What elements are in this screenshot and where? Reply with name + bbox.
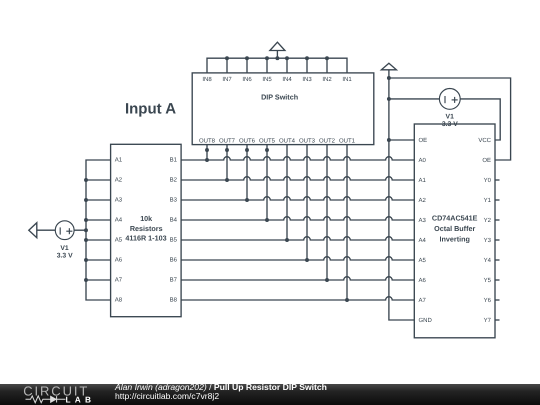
svg-text:IN2: IN2 — [322, 76, 332, 83]
svg-text:Inverting: Inverting — [440, 234, 470, 243]
wire: left supply bus joining A1..A8 — [86, 160, 111, 300]
svg-text:IN4: IN4 — [282, 76, 292, 83]
wire: B4 to A3 row at y=220 — [181, 217, 414, 220]
svg-text:B3: B3 — [170, 197, 178, 204]
svg-text:V1: V1 — [60, 245, 69, 252]
svg-text:A1: A1 — [419, 177, 427, 184]
svg-text:Resistors: Resistors — [130, 224, 163, 233]
svg-text:Y6: Y6 — [484, 297, 492, 304]
svg-text:B1: B1 — [170, 157, 178, 164]
wire: OUT1 down to row 8 — [345, 145, 349, 302]
junction dots on right bus — [387, 76, 391, 142]
CircuitLab logo — [20, 381, 120, 405]
wire: OUT2 down to row 7 — [325, 145, 329, 282]
svg-text:IN3: IN3 — [302, 76, 312, 83]
svg-text:OE: OE — [419, 137, 428, 144]
svg-text:A2: A2 — [115, 177, 123, 184]
wire: B3 to A2 row at y=200 — [181, 197, 414, 200]
svg-text:IN8: IN8 — [202, 76, 212, 83]
wire: OUT4 down to row 5 — [285, 145, 289, 242]
voltage source V1 3.3 V (left) — [37, 221, 86, 260]
svg-text:V1: V1 — [446, 114, 455, 121]
wire: B1 to A0 row at y=160 — [181, 157, 414, 160]
svg-text:OUT6: OUT6 — [239, 138, 256, 145]
svg-text:Y1: Y1 — [484, 197, 492, 204]
footer credit text — [115, 383, 327, 402]
svg-text:A3: A3 — [115, 197, 123, 204]
svg-text:IN5: IN5 — [262, 76, 272, 83]
svg-text:Octal Buffer: Octal Buffer — [434, 224, 475, 233]
wire: bus to OE (left pin) — [389, 139, 414, 141]
svg-text:4116R 1-103: 4116R 1-103 — [125, 234, 166, 243]
wire: OUT7 down to row 2 — [225, 145, 229, 182]
svg-text:A6: A6 — [419, 277, 427, 284]
resistor array U2 10k 4116R 1-103 box — [111, 144, 182, 316]
wire: 3.3V bus right (triangle stem down to GND corner) — [389, 70, 414, 320]
svg-text:Y3: Y3 — [484, 237, 492, 244]
svg-text:10k: 10k — [140, 214, 152, 223]
svg-text:B7: B7 — [170, 277, 178, 284]
svg-text:A0: A0 — [419, 157, 427, 164]
svg-text:A4: A4 — [115, 217, 123, 224]
svg-text:A5: A5 — [115, 237, 123, 244]
wire: IN bus above DIP switch — [207, 58, 347, 73]
svg-text:A4: A4 — [419, 237, 427, 244]
svg-text:B2: B2 — [170, 177, 178, 184]
svg-text:B4: B4 — [170, 217, 178, 224]
svg-text:OUT3: OUT3 — [299, 138, 316, 145]
wire: B7 to A6 row at y=280 — [181, 277, 414, 280]
voltage source V1 3.3 V (top right) — [389, 89, 460, 129]
op IC U1 CD74AC541E octal buffer box — [414, 124, 495, 338]
svg-text:A5: A5 — [419, 257, 427, 264]
wire: OUT5 down to row 4 — [265, 145, 269, 222]
svg-text:A1: A1 — [115, 157, 123, 164]
svg-text:CD74AC541E: CD74AC541E — [432, 214, 478, 223]
svg-text:B8: B8 — [170, 297, 178, 304]
wire: OUT3 down to row 6 — [305, 145, 309, 262]
svg-text:DIP Switch: DIP Switch — [261, 93, 298, 102]
svg-text:Y0: Y0 — [484, 177, 492, 184]
svg-text:Y4: Y4 — [484, 257, 492, 264]
wire: V1 to VCC pin — [460, 99, 500, 140]
wire: B5 to A4 row at y=240 — [181, 237, 414, 240]
wire: B6 to A5 row at y=260 — [181, 257, 414, 260]
svg-text:Input A: Input A — [125, 101, 176, 118]
power net flag (left triangle) at V1 minus — [29, 223, 37, 238]
power net flag (up triangle) above DIP switch — [270, 42, 285, 58]
wire: bus to OE (right pin) around top — [389, 78, 511, 160]
svg-text:IN7: IN7 — [222, 76, 232, 83]
wire: OUT6 down to row 3 — [245, 145, 249, 202]
svg-text:A7: A7 — [115, 277, 123, 284]
wire: B2 to A1 row at y=180 — [181, 177, 414, 180]
pin stubs Y0..Y7 (right side) — [495, 180, 500, 320]
svg-text:OUT2: OUT2 — [319, 138, 336, 145]
svg-text:Y2: Y2 — [484, 217, 492, 224]
svg-text:IN1: IN1 — [342, 76, 352, 83]
svg-text:OE: OE — [482, 157, 491, 164]
svg-text:IN6: IN6 — [242, 76, 252, 83]
svg-text:GND: GND — [419, 317, 433, 324]
svg-text:OUT4: OUT4 — [279, 138, 296, 145]
svg-text:OUT1: OUT1 — [339, 138, 356, 145]
DIP switch S1 box — [192, 73, 374, 145]
svg-text:VCC: VCC — [478, 137, 491, 144]
svg-text:OUT7: OUT7 — [219, 138, 236, 145]
svg-text:3.3 V: 3.3 V — [57, 252, 73, 259]
junction dots on left bus — [84, 178, 88, 282]
svg-text:A6: A6 — [115, 257, 123, 264]
wire: OUT8 down to row 1 — [205, 145, 209, 162]
svg-text:OUT5: OUT5 — [259, 138, 276, 145]
svg-text:OUT8: OUT8 — [199, 138, 216, 145]
svg-text:Y5: Y5 — [484, 277, 492, 284]
footer bar — [0, 384, 540, 405]
svg-text:A3: A3 — [419, 217, 427, 224]
wire: B8 to A7 row at y=300 — [181, 297, 414, 300]
svg-text:A8: A8 — [115, 297, 123, 304]
power net flag (up triangle) top right — [381, 63, 396, 70]
svg-text:LAB: LAB — [66, 395, 96, 405]
svg-text:A7: A7 — [419, 297, 427, 304]
svg-text:B6: B6 — [170, 257, 178, 264]
svg-text:B5: B5 — [170, 237, 178, 244]
svg-text:A2: A2 — [419, 197, 427, 204]
svg-text:Y7: Y7 — [484, 317, 492, 324]
junction dots on IN bus — [225, 56, 329, 60]
